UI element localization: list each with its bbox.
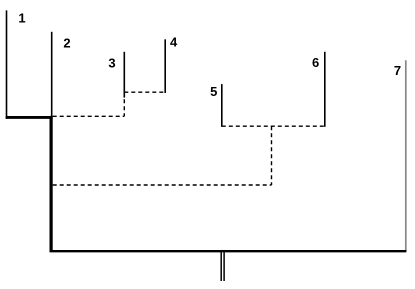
clade (3+4) dashed stem vertical	[123, 92, 125, 116]
svg-text:5: 5	[210, 84, 217, 99]
svg-text:2: 2	[63, 35, 70, 50]
leaf 4 branch (solid vertical)	[164, 39, 166, 93]
clade (5+6) dashed horizontal connector	[222, 125, 325, 127]
leaf 7 branch (gray vertical)	[405, 60, 407, 251]
clade (1+2) thick horizontal connector	[6, 116, 53, 119]
leaf 3 branch (solid vertical)	[123, 52, 125, 98]
clade (5+6) dashed stem vertical	[271, 126, 273, 185]
svg-text:4: 4	[170, 35, 178, 50]
svg-text:7: 7	[394, 63, 401, 78]
svg-text:6: 6	[312, 55, 319, 70]
leaf 5 branch (solid vertical)	[221, 84, 223, 127]
thick stem vertical from clade (1+2) to root line	[49, 116, 52, 252]
dashed horizontal joining clade (5+6) to main stem	[53, 184, 272, 186]
svg-text:3: 3	[108, 55, 115, 70]
root mark left tick	[220, 252, 222, 281]
leaf 6 branch (solid vertical)	[324, 52, 326, 127]
leaf 1 branch (solid vertical)	[6, 10, 8, 118]
root mark right tick	[223, 252, 225, 281]
dashed horizontal joining clade (3+4) to main stem	[53, 115, 125, 117]
leaf 2 branch (solid vertical)	[51, 32, 53, 117]
root baseline horizontal	[50, 250, 407, 252]
svg-text:1: 1	[18, 10, 25, 25]
clade (3+4) dashed horizontal connector	[124, 91, 165, 93]
